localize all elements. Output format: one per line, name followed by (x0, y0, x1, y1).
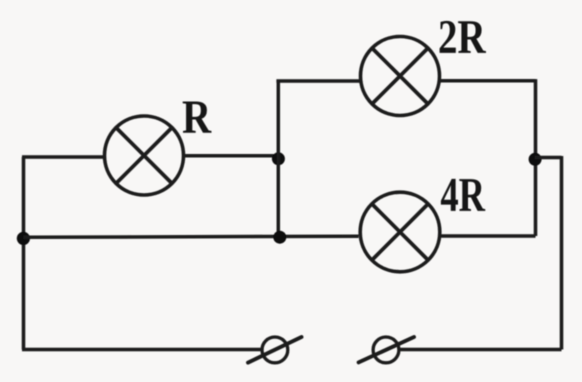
wire: top-left horizontal to lamp R (22, 155, 104, 159)
wire: bottom rail right segment (399, 348, 562, 352)
wire: bottom rail left segment (22, 348, 263, 352)
wire: top horizontal to lamp 2R (276, 79, 360, 83)
switch S2 (359, 337, 414, 363)
label 2R (440, 21, 486, 53)
wire: short horizontal from right node to outer rail (535, 156, 562, 160)
node: junction dot middle rail / middle column (273, 231, 286, 244)
wire: lamp 2R right horizontal (440, 79, 536, 83)
wire: left rail vertical (22, 157, 26, 350)
node: junction dot left rail / middle rail (17, 232, 30, 245)
wire: lamp R right to middle node (184, 154, 278, 158)
label 4R (441, 179, 485, 211)
lamp R (105, 116, 184, 195)
wire: lamp 4R right horizontal (441, 234, 536, 238)
node: junction dot right (529, 153, 542, 166)
lamp 4R (360, 192, 440, 272)
switch S1 (248, 337, 302, 363)
wire: right outer vertical rail (560, 156, 564, 350)
node: junction dot middle (R / 2R branch) (272, 152, 285, 165)
wire: middle column vertical (277, 81, 281, 237)
wire: right inner vertical (2R-4R join) (534, 79, 538, 236)
lamp 2R (361, 37, 440, 116)
wire: middle rail horizontal to lamp 4R (24, 236, 359, 237)
label R (183, 102, 212, 133)
